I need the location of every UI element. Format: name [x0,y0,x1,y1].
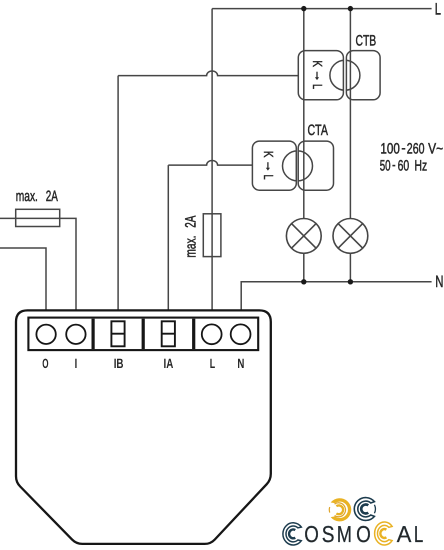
svg-text:Hz: Hz [415,157,428,174]
logo wordmark big C1 [283,523,301,545]
current transformer CTA body right [298,141,333,190]
svg-text:S: S [322,521,335,547]
fuse F2 max. 2A vertical [203,214,221,257]
wire IA with hop over L vertical [168,161,252,310]
svg-text:O: O [356,521,371,547]
lamp E2 [333,219,368,254]
svg-text:260: 260 [407,140,425,157]
terminal IB connector [111,321,124,346]
svg-text:IA: IA [164,356,174,371]
svg-text:I: I [75,356,78,371]
strip divider 3 [192,319,195,349]
svg-text:O: O [304,521,319,547]
current transformer CTB body right [346,51,380,100]
svg-text:60: 60 [398,157,410,174]
terminal IA connector [162,321,175,346]
wire IB with hop over L vertical [118,71,298,310]
svg-text:max.: max. [182,236,199,258]
svg-text:2A: 2A [46,188,58,205]
terminal L [202,324,222,344]
svg-text:2A: 2A [182,216,199,228]
terminal I [66,325,85,344]
logo wordmark letters OSMO [304,521,371,547]
svg-text:K: K [310,60,325,67]
lamp E1 [286,219,321,254]
svg-text:100: 100 [380,140,400,157]
junction dot N rail / lamp E1 [301,279,306,284]
svg-text:50: 50 [380,157,391,174]
svg-text:CTA: CTA [308,122,328,139]
svg-text:O: O [42,356,48,371]
wire I through fuse F1 [0,218,76,310]
current transformer CTA aperture [283,151,313,181]
logo mark left glyph (yellow reversed C) [329,498,351,521]
svg-text:K: K [261,151,276,158]
svg-text:L: L [435,0,441,18]
device module outline [16,310,271,544]
svg-text:IB: IB [114,356,124,371]
arrow K to L of CTA [267,162,269,168]
junction dot L rail / CTB wire [348,6,353,11]
junction dot N rail / lamp E2 [348,279,353,284]
svg-text:L: L [414,521,424,547]
logo wordmark big C2 (yellow) [375,522,393,545]
wire N rail to device [241,282,431,310]
svg-text:A: A [397,521,412,547]
wire through CTA to lamp E1 and N rail [303,9,305,282]
arrow K to L of CTB [316,72,318,78]
fuse F1 max. 2A horizontal [16,209,60,226]
svg-text:M: M [337,521,352,547]
svg-text:max.: max. [16,188,38,205]
terminal N [231,324,251,344]
junction dot L rail / CTA wire [301,6,306,11]
svg-text:L: L [210,356,215,371]
svg-text:N: N [435,273,443,291]
wire L vertical to device [211,9,213,310]
current transformer CTB body K-L [298,51,343,100]
logo mark right glyph (navy C) [354,498,375,521]
svg-text:V~: V~ [428,140,443,157]
current transformer CTB aperture [330,60,360,90]
svg-text:L: L [261,175,276,180]
svg-text:N: N [237,356,244,371]
strip divider 1 [92,319,95,349]
svg-text:L: L [310,84,325,89]
strip divider 2 [142,319,145,349]
wire through CTB to lamp E2 and N rail [349,9,351,282]
svg-text:CTB: CTB [356,32,377,49]
terminal O [36,325,55,344]
wire L rail [212,8,432,10]
terminal strip [28,318,258,351]
logo wordmark letters AL [397,521,424,547]
current transformer CTA body K-L [252,141,296,190]
wire O from left edge [0,248,46,310]
